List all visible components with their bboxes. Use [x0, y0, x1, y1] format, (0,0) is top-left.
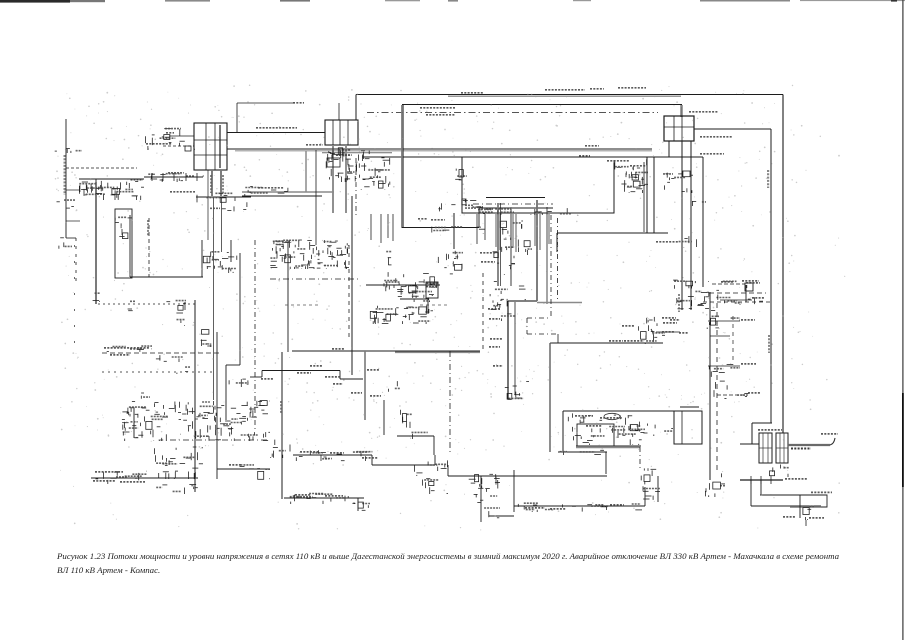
- wire vertical 202: [201, 240, 203, 277]
- substation cluster: [107, 346, 152, 352]
- wire vertical 352: [351, 196, 353, 375]
- wire second top: [402, 104, 682, 106]
- substation cluster: [197, 192, 251, 212]
- wire label: [662, 331, 674, 333]
- wire 227: [402, 227, 479, 229]
- wire vertical 130: [129, 215, 131, 277]
- label Artem 110: [783, 516, 796, 518]
- wire long 110kV: [227, 148, 652, 150]
- wire tail down: [805, 520, 807, 526]
- wire dotted 372: [102, 371, 216, 373]
- label bus 480: [785, 478, 807, 480]
- wire label: [493, 365, 503, 367]
- substation cluster: [679, 236, 697, 248]
- substation cluster: [270, 240, 349, 269]
- wire stub left: [66, 189, 79, 191]
- wire label: [610, 504, 624, 506]
- wire vertical 550: [549, 343, 551, 452]
- wire vertical 606: [605, 452, 607, 474]
- substation cluster: [177, 367, 190, 374]
- wire 469: [217, 468, 270, 470]
- wire label: [420, 107, 455, 109]
- wire 407: [680, 406, 699, 408]
- wire vertical 761: [760, 480, 762, 495]
- caption text: [57, 549, 905, 577]
- wire label: [579, 155, 590, 157]
- wire vertical 240: [239, 253, 241, 365]
- wire 506r: [751, 505, 821, 507]
- wire corner 365: [226, 364, 240, 366]
- label Dubki-Sulak: [811, 491, 832, 493]
- substation cluster: [625, 172, 648, 187]
- substation cluster: [96, 471, 148, 484]
- wire label: [256, 127, 297, 129]
- wire label: [550, 508, 566, 510]
- wire dashdot 557: [557, 218, 559, 302]
- wire label: [586, 425, 602, 427]
- wire label: [590, 88, 604, 90]
- wire thick 402: [401, 105, 403, 228]
- substation cluster: [389, 381, 400, 392]
- substation cluster: [122, 402, 181, 442]
- substation cluster: [723, 281, 747, 288]
- substation cluster: [290, 494, 356, 505]
- wire vertical 647: [646, 157, 648, 233]
- wire vertical 481: [480, 476, 482, 522]
- substation cluster: [663, 171, 693, 193]
- wire stub 366: [708, 365, 740, 367]
- scan right edge line: [891, 0, 904, 640]
- wire loop top: [563, 410, 674, 412]
- wire bus 179: [79, 178, 144, 180]
- wire thick 498: [497, 203, 499, 286]
- substation cluster: [155, 447, 203, 479]
- substation cluster: [59, 238, 72, 249]
- wire thin 500: [500, 203, 502, 286]
- wire chain 285: [366, 284, 440, 286]
- substation cluster: [203, 252, 237, 273]
- node B1 big loop: [462, 157, 614, 213]
- substation cluster: [469, 474, 500, 518]
- substation cluster: [716, 297, 763, 305]
- label PS 330 Artem: [758, 429, 782, 431]
- wire 197: [486, 197, 545, 199]
- substation cluster: [415, 460, 448, 476]
- wire dashed 168: [66, 167, 137, 169]
- wire dashdot 255: [254, 240, 256, 430]
- substation cluster: [166, 301, 186, 313]
- substation cluster: [57, 200, 77, 208]
- box 426: [426, 282, 438, 298]
- wire stub top: [237, 102, 295, 104]
- wire long vertical 195: [194, 300, 196, 492]
- wire label: [367, 369, 380, 371]
- wire label: [670, 319, 680, 321]
- node ATC oval: [604, 413, 620, 419]
- substation cluster: [711, 369, 727, 397]
- wire corner 558: [557, 334, 559, 343]
- substation cluster: [478, 206, 547, 215]
- wire double bus gray: [242, 191, 334, 193]
- wire dashed 483: [482, 273, 484, 352]
- wire label: [310, 365, 323, 367]
- wire step 340: [339, 371, 341, 380]
- wire dashdot 334: [527, 333, 558, 335]
- wire uchkent line: [262, 370, 340, 372]
- rotated wire label: [210, 175, 212, 193]
- wire gray 352: [395, 351, 480, 353]
- wire stub 336: [710, 335, 730, 337]
- wire dashdot 440: [170, 439, 270, 441]
- wire T1 left in: [169, 135, 194, 137]
- substation cluster: [560, 450, 604, 455]
- wire dashdot 318: [527, 317, 551, 319]
- wire vertical 96 thick: [95, 182, 97, 304]
- wire label: [624, 340, 644, 342]
- substation cluster: [201, 330, 212, 347]
- wire step 262: [261, 371, 263, 378]
- substation cluster: [240, 465, 255, 469]
- substation cluster: [358, 502, 370, 510]
- wire vertical 658: [657, 476, 659, 502]
- wire label: [700, 136, 732, 138]
- wire label: [525, 507, 545, 509]
- node comb thin drops: [371, 214, 485, 244]
- wire step 479: [478, 208, 480, 228]
- node comb gray drops: [496, 213, 549, 252]
- wire T1 left dashed: [163, 145, 194, 147]
- wire double bus: [242, 195, 322, 197]
- box khasa-servis: [745, 283, 753, 291]
- wire vertical 454: [453, 213, 455, 249]
- wire dashed 305b: [420, 304, 448, 306]
- wire stub up: [236, 103, 238, 132]
- wire label: [585, 145, 599, 147]
- wire step3: [447, 465, 449, 476]
- substation cluster: [518, 240, 532, 256]
- wire 379: [340, 378, 363, 380]
- wire label: [351, 392, 362, 394]
- wire label: [741, 319, 755, 321]
- substation cluster: [79, 180, 144, 200]
- wire bus under S1: [645, 156, 703, 158]
- wire vertical 710: [709, 292, 711, 480]
- substation cluster: [182, 401, 270, 441]
- wire stub 284: [712, 283, 745, 285]
- wire gray parallel: [235, 150, 652, 152]
- wire label: [229, 464, 242, 466]
- node Artem boxes internal: [759, 433, 788, 463]
- substation cluster: [692, 201, 706, 206]
- wire label: [120, 481, 145, 483]
- substation cluster Artem lower: [770, 465, 790, 478]
- wire VL-330 right: [694, 128, 771, 130]
- wire thick 537: [536, 200, 538, 301]
- box small T1: [185, 146, 191, 151]
- substation cluster: [384, 272, 436, 288]
- wire T1-T2 link: [227, 132, 325, 134]
- wire chain 455: [293, 454, 372, 456]
- substation cluster: [400, 410, 412, 428]
- label bold under feed: [791, 448, 811, 450]
- transformer box Artem-2: [776, 433, 788, 463]
- box loop right: [821, 495, 827, 507]
- wire label: [721, 281, 734, 283]
- wire bus 177: [144, 176, 203, 178]
- wire dashed 353: [102, 352, 221, 354]
- wire label: [481, 261, 495, 263]
- wire 495: [760, 494, 821, 496]
- wire vertical 217: [216, 332, 218, 479]
- wire T1 drop gray2: [220, 170, 222, 196]
- wire label: [662, 317, 676, 319]
- wire T1 divider: [205, 123, 207, 170]
- wire label: [130, 348, 144, 350]
- wire label: [663, 322, 677, 324]
- node bus177 ticks: [152, 173, 197, 181]
- wire long 478: [91, 477, 198, 479]
- substation cluster: [423, 479, 449, 494]
- substation cluster: [411, 432, 428, 439]
- wire label: [166, 132, 174, 134]
- wire label: [700, 153, 724, 155]
- wire label: [295, 494, 311, 496]
- wire label: [170, 191, 195, 193]
- wire step: [371, 455, 373, 465]
- wire label: [104, 347, 150, 349]
- wire chain 506: [514, 505, 645, 507]
- wire gray 507: [790, 506, 821, 508]
- wire bus 208: [479, 207, 553, 209]
- wire dashdot 356: [355, 158, 357, 215]
- wire dashed 293: [709, 292, 766, 294]
- wire stub 395: [717, 394, 748, 396]
- wire vertical 358: [357, 498, 359, 511]
- wire label: [480, 252, 496, 254]
- wire label: [95, 471, 123, 473]
- wire label: [300, 451, 318, 453]
- wire label: [752, 297, 764, 299]
- wire corner drop 752: [751, 423, 753, 444]
- wire label: [110, 354, 130, 356]
- wire label: [748, 392, 760, 394]
- rotated label 149: [147, 220, 149, 236]
- substation cluster: [493, 247, 515, 275]
- wire S1 leg: [668, 141, 670, 157]
- wire chain 498: [284, 497, 364, 499]
- wire S1 divider: [673, 116, 675, 141]
- substation cluster: [384, 307, 418, 322]
- wire label: [362, 457, 378, 459]
- substation cluster: [490, 281, 526, 310]
- rotated label 282: [280, 401, 282, 413]
- substation cluster: [257, 469, 270, 480]
- wire vertical 547: [546, 207, 548, 304]
- wire T1 divider2: [214, 123, 216, 170]
- wire vertical 654: [653, 157, 655, 233]
- substation cluster: [141, 393, 150, 399]
- wire bus 197: [196, 196, 251, 198]
- wire gray vertical 306: [305, 151, 307, 192]
- wire 299: [400, 298, 429, 300]
- substation cluster: [156, 355, 183, 362]
- wire 377: [250, 376, 262, 378]
- wire dashed top: [367, 112, 658, 114]
- wire label: [689, 111, 718, 113]
- substation cluster: [438, 251, 463, 274]
- substation cluster: [386, 252, 392, 266]
- wire dashed 349: [348, 245, 350, 340]
- scan noise speckle: [55, 85, 846, 531]
- substation cluster: [128, 301, 136, 310]
- wire vertical 384: [383, 400, 385, 435]
- wire label: [489, 346, 500, 348]
- wire label: [575, 415, 593, 417]
- wire stub 321: [708, 320, 740, 322]
- substation cluster: [615, 159, 648, 193]
- wire left vertical: [65, 119, 67, 238]
- wire S1 divider2: [681, 116, 683, 141]
- wire label: [146, 143, 172, 145]
- wire long 351: [292, 350, 480, 352]
- wire vertical 800: [799, 495, 801, 518]
- wire corner down: [556, 233, 558, 252]
- wire dashed 305a: [285, 304, 318, 306]
- wire label: [656, 241, 678, 243]
- wire label: [297, 372, 311, 374]
- substation cluster: [146, 129, 195, 150]
- substation cluster: [370, 306, 409, 324]
- substation cluster: [709, 318, 740, 325]
- wire label: [431, 219, 445, 221]
- substation cluster: [404, 301, 430, 314]
- wire left feed 444: [740, 443, 759, 445]
- wire stub left2: [66, 220, 80, 222]
- wire bus 277: [130, 276, 203, 278]
- wire S1 leg long2: [690, 141, 692, 310]
- wire dashdot 527: [526, 318, 528, 334]
- scan top edge artifact: [0, 0, 905, 3]
- wire vertical 514: [513, 470, 515, 512]
- wire label: [325, 376, 340, 378]
- wire dashed 76: [75, 238, 77, 285]
- wire vertical 751: [750, 480, 752, 506]
- rotated wire label: [768, 335, 770, 353]
- box under T2: [327, 158, 340, 167]
- wire dashed 717: [716, 303, 718, 470]
- label right: [809, 517, 824, 519]
- wire label: [741, 363, 756, 365]
- wire label: [622, 325, 634, 327]
- wire dashdot 204: [473, 203, 553, 205]
- substation cluster: [177, 320, 186, 326]
- substation cluster: [501, 314, 516, 321]
- substation cluster: [641, 468, 660, 500]
- wire label: [679, 332, 688, 334]
- wire S1 leg long: [681, 141, 683, 310]
- substation cluster: [115, 217, 132, 238]
- transformer T1 box: [194, 123, 227, 170]
- wire dashed 302: [703, 301, 770, 303]
- wire label: [333, 383, 343, 385]
- wire 516b: [489, 515, 514, 517]
- substation cluster: [548, 208, 578, 216]
- wire label: [488, 308, 500, 310]
- wire label: [746, 282, 760, 284]
- wire vertical 644: [643, 162, 645, 232]
- wire label: [426, 114, 455, 116]
- substation cluster: [500, 221, 523, 240]
- substation cluster: [724, 393, 749, 398]
- substation cluster: [705, 473, 725, 497]
- wire stub 339: [338, 103, 340, 120]
- wire vertical 231: [230, 240, 232, 262]
- wire vertical 316: [315, 150, 317, 245]
- wire thin 402: [402, 105, 404, 228]
- substation cluster: [691, 290, 719, 305]
- wire dashed 733: [732, 316, 734, 363]
- wire T2 divider2: [339, 120, 341, 145]
- wire inner loop divider: [681, 411, 683, 444]
- wire stub 300: [720, 299, 752, 301]
- wire vertical 282: [281, 352, 283, 499]
- wire inner bottom gray: [576, 447, 640, 449]
- wire dotted 304: [98, 303, 198, 305]
- wire label: [293, 102, 304, 104]
- substation cluster: [639, 317, 665, 344]
- wire label: [330, 452, 344, 454]
- substation cluster: [673, 280, 709, 309]
- transformer T2 box: [325, 120, 358, 145]
- substation cluster: [358, 150, 390, 190]
- wire vertical 508: [507, 301, 509, 399]
- wire dashdot 551: [550, 215, 552, 318]
- wire short parallel: [322, 152, 392, 154]
- wire dashed 149: [148, 218, 150, 277]
- wire vertical 213: [213, 198, 215, 400]
- node bus480 ticks: [751, 476, 771, 484]
- wire loop left: [562, 411, 564, 451]
- wire vertical 428: [427, 299, 429, 314]
- substation cluster: [93, 293, 100, 301]
- wire T1 gray bar: [219, 125, 221, 168]
- wire S1 mid: [664, 126, 694, 128]
- box airport: [577, 424, 614, 446]
- wire vertical 96 top: [95, 179, 97, 182]
- wire gray 302: [537, 302, 582, 304]
- wire chain 465: [372, 464, 435, 466]
- wire vertical 703: [702, 157, 704, 287]
- wire vertical 434: [433, 436, 435, 455]
- wire thick corner 301: [508, 300, 537, 302]
- wire label: [609, 340, 623, 342]
- wire mid horizontal: [557, 232, 668, 234]
- box PS left tall: [115, 209, 132, 278]
- wire top corner drop: [355, 95, 357, 121]
- substation cluster: [568, 413, 645, 445]
- wire corner 423: [752, 422, 772, 424]
- wire box top chain: [362, 156, 647, 158]
- substation cluster: [518, 503, 582, 512]
- wire vertical 208: [207, 170, 209, 240]
- wire khasavyurt line: [550, 342, 663, 344]
- wire vertical 226: [225, 365, 227, 420]
- node kizilyurt hook: [651, 329, 654, 342]
- substation cluster: [455, 169, 467, 180]
- rotated wire label: [678, 294, 680, 312]
- wire label: [306, 144, 323, 146]
- label feed: [821, 433, 838, 435]
